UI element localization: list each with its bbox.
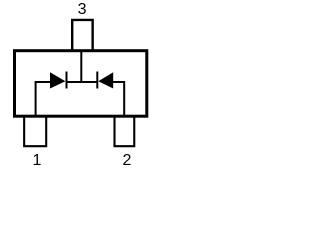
svg-text:1: 1 xyxy=(33,152,42,169)
package body outline xyxy=(15,51,147,117)
svg-text:2: 2 xyxy=(123,152,132,169)
wire pin1 to D1 anode xyxy=(36,82,50,116)
diode D2 cathode bar xyxy=(96,72,98,89)
wire D1 cathode to D2 cathode xyxy=(67,81,98,83)
wire D2 anode to pin2 xyxy=(113,82,124,116)
pin 2 tab xyxy=(115,117,135,146)
diode D2 triangle xyxy=(98,72,113,88)
wire pin3 to cathode junction xyxy=(80,50,82,82)
diode D1 triangle xyxy=(50,72,65,88)
svg-text:3: 3 xyxy=(78,1,87,18)
diode D1 cathode bar xyxy=(66,72,68,89)
pin 3 tab xyxy=(72,20,92,50)
pin 1 tab xyxy=(24,117,46,146)
